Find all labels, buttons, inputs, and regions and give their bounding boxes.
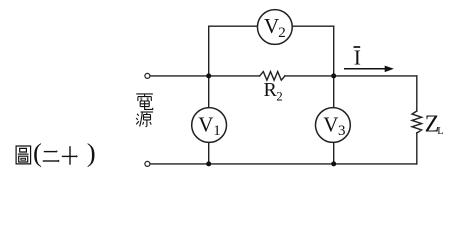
svg-text:2: 2 xyxy=(278,25,286,41)
svg-text:): ) xyxy=(87,138,96,168)
svg-text:3: 3 xyxy=(338,123,346,139)
svg-text:(: ( xyxy=(33,138,42,168)
svg-text:2: 2 xyxy=(276,89,283,104)
svg-text:L: L xyxy=(437,126,443,137)
svg-text:V: V xyxy=(198,112,213,136)
svg-text:V: V xyxy=(264,14,279,38)
svg-text:1: 1 xyxy=(213,123,221,139)
svg-text:I: I xyxy=(354,46,361,70)
svg-text:V: V xyxy=(323,112,338,136)
